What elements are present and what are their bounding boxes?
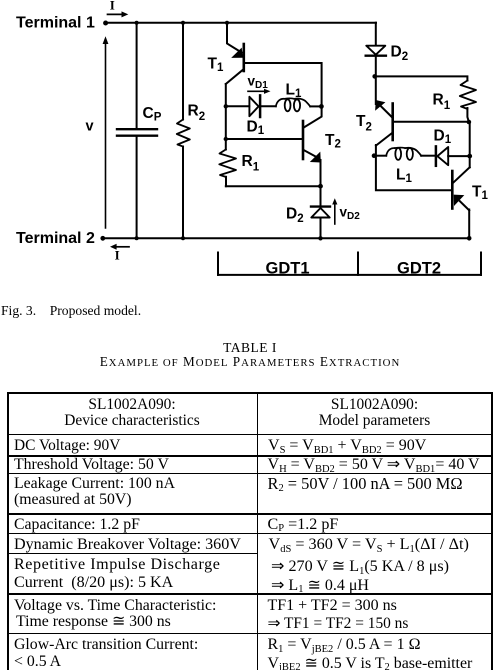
transistor T2 GDT2 emitter column <box>375 76 377 104</box>
transistor T1 GDT1 bar <box>243 44 246 71</box>
svg-text:D1: D1 <box>247 119 265 138</box>
diode D1 GDT1 cathode bar <box>259 95 262 117</box>
transistor T2 GDT1 base wire <box>226 138 302 140</box>
inductor L1 GDT2 <box>386 148 395 156</box>
node R2 top <box>181 21 185 25</box>
wire D2 anode column GDT1 <box>320 186 322 206</box>
node T1 emitter bottom GDT2 <box>467 236 472 241</box>
diode D2 GDT1 bottom lead <box>320 218 322 239</box>
svg-text:GDT2: GDT2 <box>397 260 441 278</box>
table text: header <box>8 397 256 412</box>
voltage arrow vD2 line <box>334 203 336 224</box>
current arrow I top line <box>108 13 123 15</box>
node L1 right GDT1 <box>319 104 324 109</box>
svg-text:Terminal 2: Terminal 2 <box>16 230 95 247</box>
transistor T1 GDT2 collector diagonal <box>453 167 469 182</box>
transistor T2 GDT2 collector diagonal <box>376 133 392 146</box>
resistor R1 GDT1 bottom lead <box>225 177 227 186</box>
svg-text:D2: D2 <box>391 44 409 64</box>
wire GDT2 right column <box>469 122 471 167</box>
diode D2 GDT1 cathode bar <box>311 205 330 207</box>
wire GDT1 left column <box>225 84 227 150</box>
node L1 left GDT2 <box>372 153 377 158</box>
arrowhead vD2 up <box>332 198 337 204</box>
wire GDT2 top column <box>375 23 377 45</box>
diode D1 GDT2 triangle <box>437 147 448 165</box>
diode D2 GDT1 triangle <box>311 208 329 218</box>
wire Terminal2 bottom rail <box>103 237 469 239</box>
transistor T1 GDT1 emitter arrowhead <box>231 48 243 58</box>
svg-text:I: I <box>115 247 120 262</box>
svg-text:L1: L1 <box>396 167 412 186</box>
wire GDT2 left inner column <box>376 145 451 190</box>
node T2 base right GDT2 <box>467 120 472 125</box>
transistor T2 GDT1 emitter arrowhead <box>310 152 321 163</box>
transistor T2 GDT1 bar <box>302 121 305 159</box>
transistor T2 GDT2 base wire <box>394 121 469 123</box>
wire L1 to node GDT1 <box>310 105 321 107</box>
svg-text:D2: D2 <box>286 206 304 226</box>
wire D1 to node GDT2 <box>448 155 470 157</box>
wire L1 lead GDT2 <box>374 155 386 157</box>
diode D2 GDT2 cathode bar <box>366 55 386 57</box>
svg-text:T2: T2 <box>325 132 341 151</box>
svg-text:D1: D1 <box>434 128 452 147</box>
svg-text:Terminal 1: Terminal 1 <box>16 15 95 32</box>
node T2 base GDT1 <box>224 137 228 141</box>
resistor R2 zigzag <box>177 120 190 147</box>
bracket GDT line <box>218 274 481 276</box>
arrowhead vD1 right <box>264 89 271 94</box>
capacitor CP plates <box>117 128 157 130</box>
svg-text:v: v <box>86 119 94 135</box>
svg-text:I: I <box>110 0 115 13</box>
transistor T2 GDT1 emitter diagonal <box>304 150 317 157</box>
wire Terminal1 top rail <box>106 22 376 24</box>
node R2 bottom <box>181 236 185 240</box>
diode D2 GDT2 bottom lead <box>375 57 377 77</box>
svg-text:GDT1: GDT1 <box>266 260 310 278</box>
resistor R2 bottom lead <box>182 147 184 239</box>
diode D1 GDT1 triangle <box>249 97 258 116</box>
node terminal 1 <box>103 21 108 26</box>
current arrow I bottom line <box>116 246 130 248</box>
transistor T1 GDT2 emitter arrowhead <box>454 195 465 206</box>
wire D1 to L1 GDT1 <box>260 105 276 107</box>
svg-text:T2: T2 <box>356 113 372 134</box>
resistor R1 GDT2 zigzag <box>460 81 476 110</box>
node CP bottom <box>135 236 139 240</box>
transistor T1 GDT2 emitter diagonal <box>460 201 469 210</box>
svg-text:R2: R2 <box>188 103 206 124</box>
node T1 top GDT1 <box>225 21 229 25</box>
transistor T2 GDT2 bar <box>391 104 394 141</box>
arrowhead I bottom <box>110 244 117 250</box>
transistor T2 GDT2 emitter diagonal <box>380 105 392 117</box>
svg-text:vD2: vD2 <box>340 205 361 223</box>
figure caption <box>1 303 141 319</box>
resistor R1 GDT2 bottom lead <box>467 108 469 122</box>
left column rows <box>14 438 120 453</box>
svg-text:CP: CP <box>143 105 162 124</box>
wire L1 to D1 GDT2 <box>421 155 434 157</box>
transistor T2 GDT2 emitter arrowhead <box>375 100 385 111</box>
node terminal 2 <box>100 236 105 241</box>
right column rows <box>268 438 426 453</box>
capacitor CP bottom lead <box>136 137 138 239</box>
svg-text:vD1: vD1 <box>248 74 269 92</box>
node D1 right GDT2 <box>467 154 472 159</box>
svg-text:T1: T1 <box>472 184 488 203</box>
node D2 cathode GDT2 <box>372 74 377 79</box>
resistor R2 top lead <box>182 23 184 120</box>
svg-text:R1: R1 <box>433 92 451 113</box>
wire GDT1 inner bottom <box>226 185 321 187</box>
node D1 anode GDT1 <box>224 104 228 108</box>
diode D1 GDT2 cathode bar <box>435 146 438 165</box>
transistor T1 GDT1 collector diagonal <box>226 70 243 84</box>
wire D1 anode GDT1 <box>226 105 249 107</box>
wire T1 emitter column GDT2 <box>468 210 470 239</box>
svg-text:T1: T1 <box>208 56 224 75</box>
svg-text:R1: R1 <box>242 153 260 174</box>
capacitor CP top lead <box>136 23 138 128</box>
table title <box>0 340 500 356</box>
transistor T1 GDT1 base wire <box>245 63 322 106</box>
voltage arrow vD1 line <box>248 90 265 92</box>
inductor L1 GDT1 <box>276 99 285 107</box>
node CP top <box>135 21 139 25</box>
wire T1 emitter column GDT1 <box>227 23 242 53</box>
node GDT1 inner bottom <box>318 184 323 189</box>
wire T2 emitter column GDT1 <box>320 160 322 186</box>
voltage arrow v line <box>105 40 107 228</box>
svg-text:L1: L1 <box>286 82 302 101</box>
table borders <box>7 392 493 394</box>
wire GDT2 node to R1 <box>375 76 468 80</box>
node D2 bottom GDT1 <box>318 236 322 240</box>
resistor R1 GDT1 zigzag <box>219 150 236 178</box>
wire T2 collector column GDT1 <box>304 106 322 127</box>
transistor T1 GDT2 bar <box>451 171 454 209</box>
arrowhead I top <box>122 11 129 17</box>
circuit schematic Fig.3 <box>0 0 500 296</box>
arrowhead v up <box>103 36 109 44</box>
diode D2 GDT2 triangle <box>366 46 385 55</box>
